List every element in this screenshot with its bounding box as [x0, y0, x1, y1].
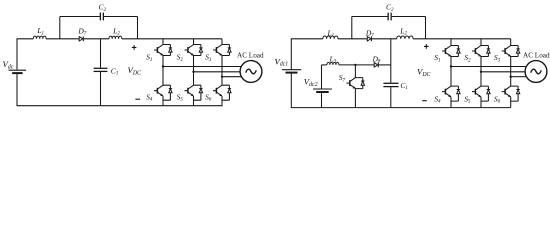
inductor L1 [33, 36, 46, 39]
wire left vertical bottom (Vdc- to bottom rail) [16, 74, 18, 106]
switch S7 [346, 78, 364, 89]
wire phase a (right) [451, 66, 527, 68]
wire leg 3 bottom [221, 96, 223, 106]
node phase a (right) [450, 65, 452, 67]
battery Vdc2 [313, 89, 332, 92]
wire top rail / bridge bus (right) [413, 38, 511, 40]
wire L1 to D7 [46, 38, 79, 40]
inductor L2 [109, 36, 122, 39]
inductor L1 (right) [323, 36, 338, 39]
wire D8 to node C [379, 64, 391, 66]
wire leg 2 mid (right) [480, 56, 482, 86]
svg-text:AC Load: AC Load [523, 51, 550, 59]
switch S3 [213, 45, 231, 56]
minus sign VDC (right) [422, 100, 427, 102]
wire stub S3 (right) [510, 39, 512, 46]
diode D7 (right) [367, 37, 371, 42]
capacitor C1 (right) [383, 83, 398, 86]
wire leg 3 mid (right) [510, 56, 512, 86]
wire leg 2 bottom [193, 96, 195, 106]
wire leg 1 bottom (right) [450, 97, 452, 108]
wire C2 right drop to rail (right) [425, 17, 427, 39]
wire bottom rail (right) [291, 107, 511, 109]
wire left vertical top (Vdc+ to top rail) [16, 39, 18, 70]
wire L3 to D8 [339, 64, 374, 66]
wire leg 2 bottom (right) [480, 97, 482, 108]
switch S4 [154, 85, 172, 100]
minus sign VDC [135, 98, 140, 100]
wire top rail segment A [17, 38, 34, 40]
wire S7 emitter to bottom rail [354, 89, 356, 108]
wire L1 to D7 (right) [338, 38, 367, 40]
wire leg 1 mid (right) [450, 56, 452, 86]
wire C2 top right segment [104, 16, 138, 18]
plus sign VDC [132, 45, 137, 50]
capacitor C2 [100, 13, 103, 21]
wire top rail / bridge bus [122, 38, 222, 40]
node phase b [192, 71, 194, 73]
AC load sine [246, 69, 257, 74]
wire stub S1 (right) [450, 39, 452, 46]
node phase c (right) [510, 76, 512, 78]
battery Vdc [9, 70, 27, 73]
AC load sine (right) [531, 69, 542, 74]
wire phase b (right) [481, 71, 526, 73]
inductor L2 (right) [397, 36, 413, 39]
wire aux rail left [322, 64, 327, 66]
AC load source circle (right) [525, 61, 547, 83]
wire node B drop to C1 [100, 39, 102, 68]
wire C2 top left segment [60, 16, 100, 18]
inductor L3 [327, 62, 339, 65]
svg-text:AC Load: AC Load [237, 52, 264, 60]
capacitor C1 [94, 68, 108, 71]
switch S5 [185, 85, 203, 100]
wire C1 to bottom rail (right) [390, 87, 392, 108]
wire phase a [163, 66, 242, 68]
node phase a [162, 65, 164, 67]
switch S1 [154, 45, 172, 56]
node A riser wire to C2 [59, 17, 61, 39]
wire D7 to L2 [84, 38, 109, 40]
wire top rail segment [291, 38, 323, 40]
wire stub S2 [193, 39, 195, 45]
switch S5 (right) [472, 86, 490, 101]
capacitor C2 (right) [388, 13, 391, 21]
wire C2 top left segment (right) [352, 16, 388, 18]
switch S1 (right) [442, 46, 460, 57]
node phase b (right) [480, 71, 482, 73]
wire C1 riser (rail to node C) [390, 39, 392, 65]
wire bottom rail [17, 105, 223, 107]
switch S2 [185, 45, 203, 56]
switch S3 (right) [502, 46, 520, 57]
wire D7 to L2 (right) [372, 38, 397, 40]
wire C2 top right segment (right) [392, 16, 426, 18]
switch S4 (right) [442, 86, 460, 101]
plus sign VDC (right) [424, 44, 429, 49]
switch S6 (right) [502, 86, 520, 101]
diode D7 [79, 37, 83, 42]
wire stub S2 (right) [480, 39, 482, 46]
riser wire to C2 (right) [351, 17, 353, 39]
wire Vdc2 top vertical [321, 65, 323, 89]
wire leg 2 mid [193, 55, 195, 85]
diode D8 [374, 63, 378, 68]
switch S2 (right) [472, 46, 490, 57]
wire C1 to bottom rail [100, 72, 102, 106]
wire C2 right drop to rail [137, 17, 139, 39]
wire right-circuit left vertical top [290, 39, 292, 69]
wire stub S1 [162, 39, 164, 45]
wire node C down to C1 [390, 65, 392, 83]
aux branch corner wire [321, 65, 323, 69]
wire right-circuit left vertical bottom [290, 73, 292, 107]
wire phase c [222, 76, 242, 78]
switch S6 [213, 85, 231, 100]
wire stub S3 [221, 39, 223, 45]
wire leg 1 mid [162, 55, 164, 85]
wire Vdc2 bottom vertical [321, 93, 323, 108]
battery Vdc1 [282, 70, 301, 73]
node S7 junction [354, 64, 356, 66]
wire phase c (right) [511, 76, 527, 78]
wire phase b [194, 71, 241, 73]
wire S7 collector stub [354, 65, 356, 78]
AC load source circle [240, 61, 262, 83]
node phase c [221, 76, 223, 78]
wire leg 3 mid [221, 55, 223, 85]
wire leg 3 bottom (right) [510, 97, 512, 108]
wire leg 1 bottom [162, 96, 164, 106]
